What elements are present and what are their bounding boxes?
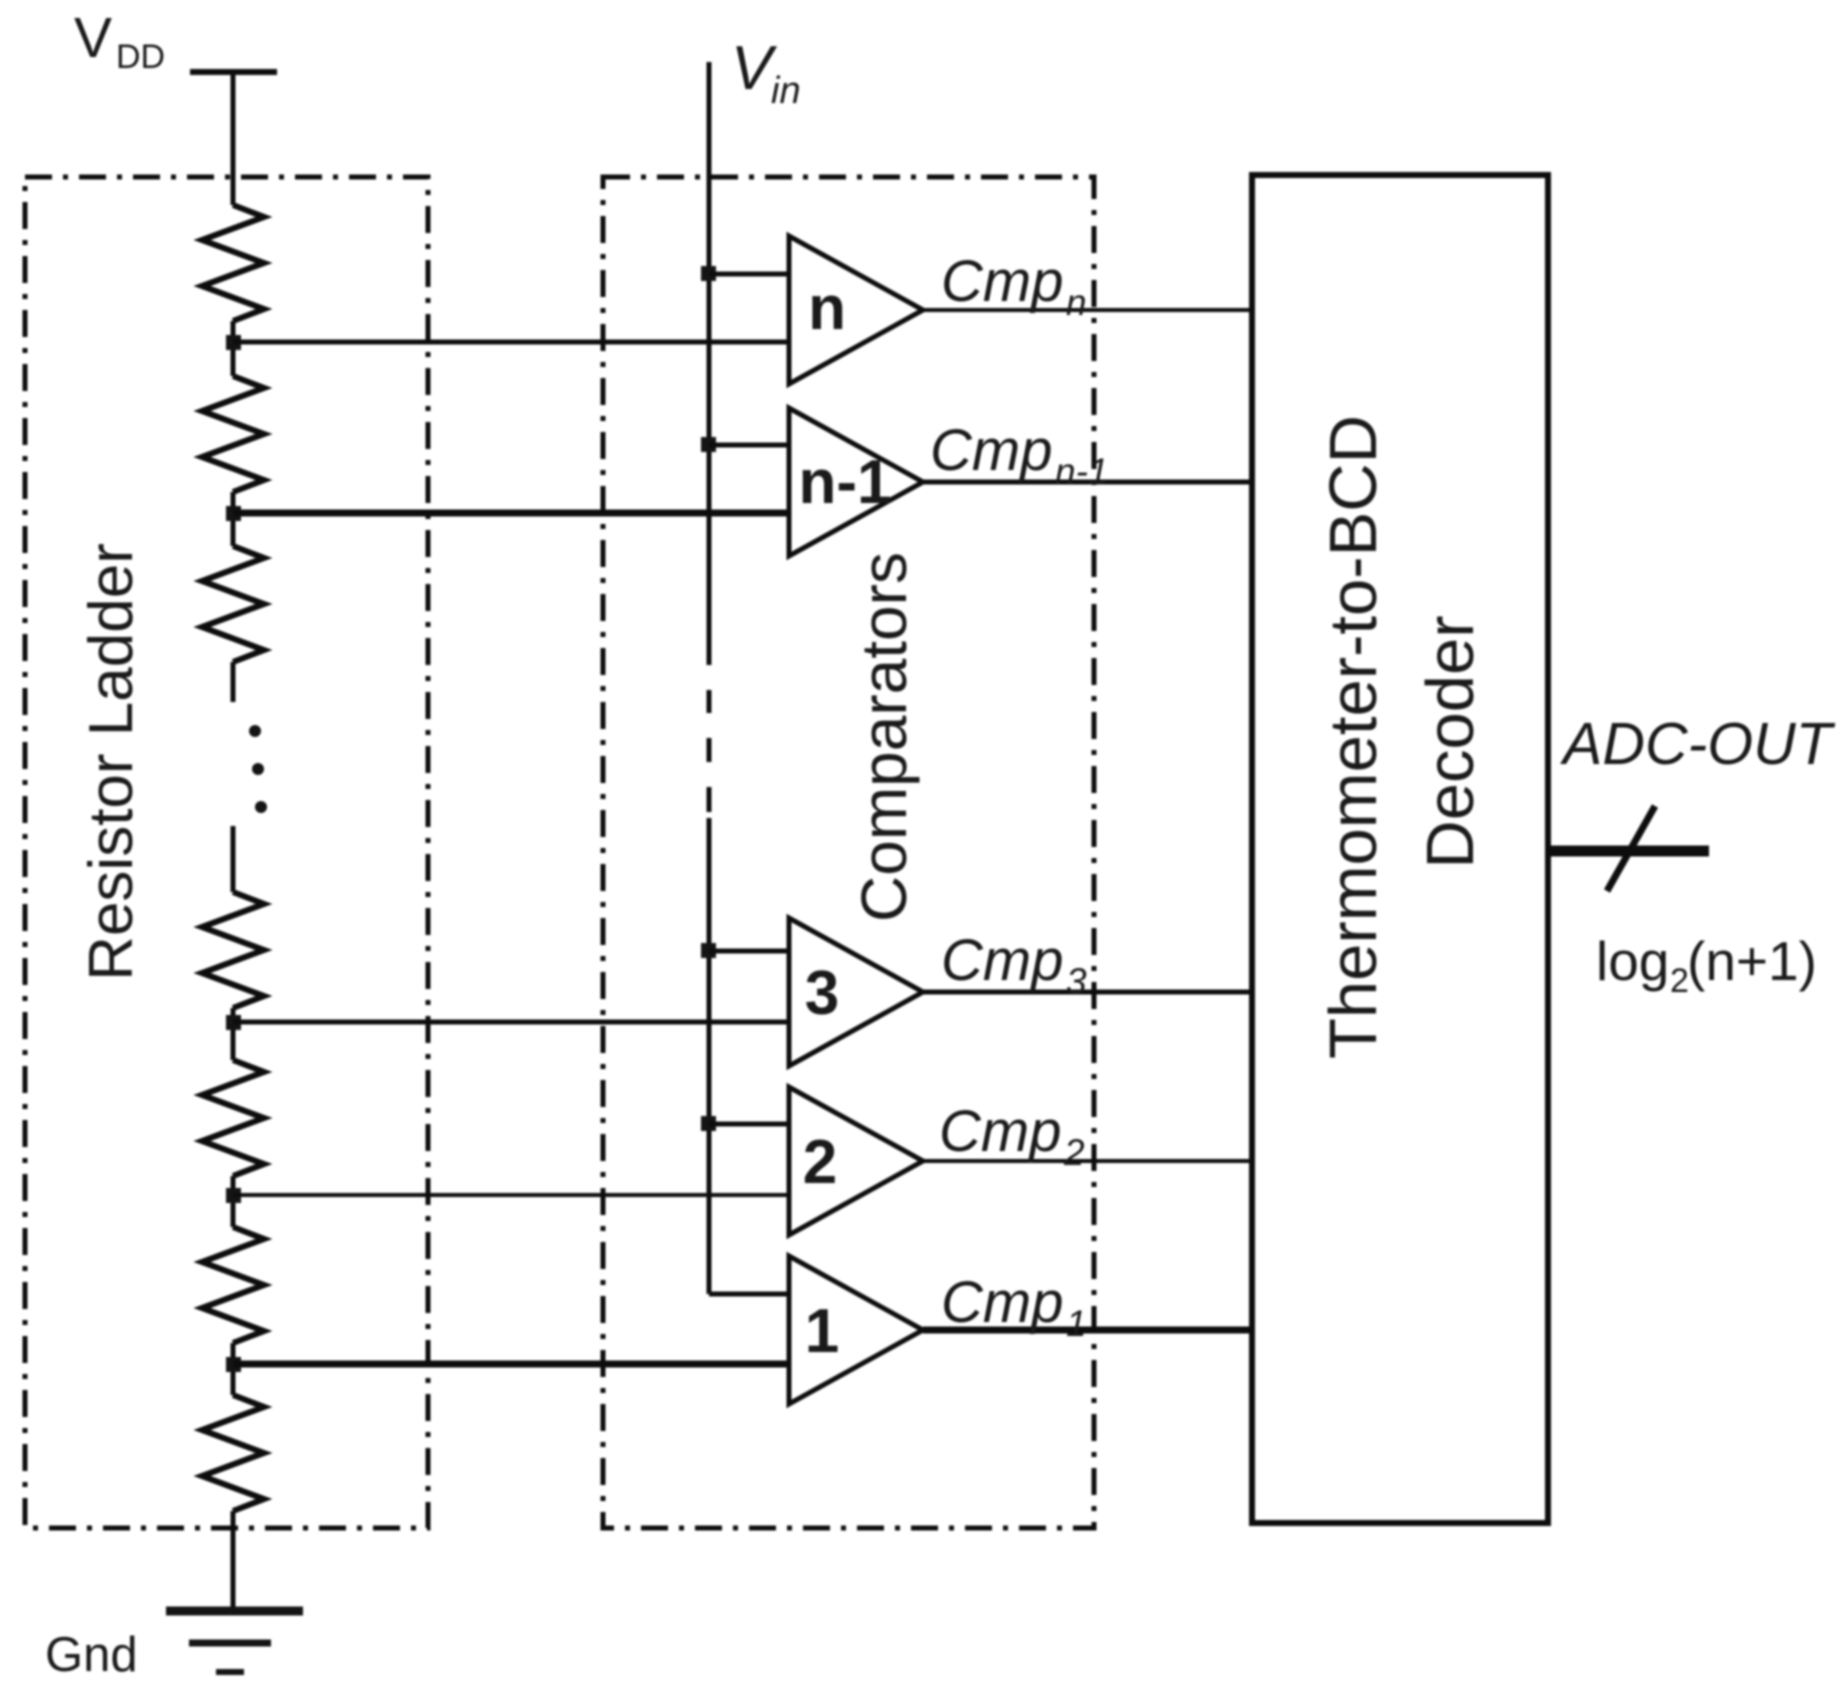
svg-text:Cmp: Cmp [941,249,1063,314]
net label Cmp_1 [941,1270,1087,1344]
svg-text:3: 3 [1066,961,1087,1002]
wire Vin vertical upper [707,62,712,665]
svg-text:n: n [1066,282,1087,323]
svg-text:1: 1 [805,1297,839,1366]
svg-text:Cmp: Cmp [941,928,1063,993]
wire Vin to comparator 2 upper input [709,1122,789,1127]
wire ADC output bus [1548,846,1709,857]
wire Vin to comparator n upper input [709,272,789,277]
svg-text:Resistor Ladder: Resistor Ladder [77,543,146,981]
resistor R6 [202,1227,264,1343]
wire tap D to comparator 2 lower input [233,1193,789,1197]
comparators dash-dot box [603,177,1094,1528]
svg-text:in: in [771,70,801,112]
wire Vin vertical lower [707,818,712,1294]
resistor ladder dash-dot box [25,177,428,1528]
wire comparator 2 output Cmp_2 [923,1159,1252,1163]
comparator n-1 [789,408,923,556]
svg-text:1: 1 [1066,1303,1087,1344]
node tap C junction dot [226,1015,241,1030]
svg-text:Comparators: Comparators [848,552,920,922]
svg-text:3: 3 [805,959,839,1028]
net label Cmp_3 [941,928,1087,1002]
wire tap A to comparator n lower input [233,340,789,345]
node tap D junction dot [226,1188,241,1203]
svg-text:Cmp: Cmp [930,418,1052,483]
resistor R1 [202,205,264,321]
wire R6 to tap E [231,1343,236,1395]
node tap E junction dot [226,1357,241,1372]
wire tap C to comparator 3 lower input [233,1020,789,1025]
ladder continuation dots [249,725,267,813]
wire comparator n-1 output Cmp_n-1 [923,480,1252,485]
comparator 3 [789,918,923,1066]
ground symbol [166,1611,303,1672]
node Vin junction dot comparator 2 [701,1116,716,1131]
wire ladder resume to R4 [231,826,236,892]
svg-text:n-1: n-1 [1055,451,1108,492]
svg-text:V: V [74,6,112,70]
wire tap E to comparator 1 lower input [233,1361,789,1368]
wire R7 to ground [231,1511,236,1612]
wire R3 lead out [231,662,236,702]
wire R2 to tap B [231,492,236,546]
wire VDD to ladder [231,72,236,205]
bus width slash [1607,806,1655,891]
svg-text:n: n [808,274,846,343]
wire tap B to comparator n-1 lower input [233,510,789,517]
svg-text:Cmp: Cmp [941,1270,1063,1335]
svg-text:2: 2 [803,1128,837,1197]
node Vin junction dot comparator n [701,266,716,281]
net label Cmp_n-1 [930,418,1108,492]
wire comparator 1 output Cmp_1 [923,1327,1252,1334]
comparator n [789,236,923,384]
wire comparator n output Cmp_n [923,308,1252,312]
wire Vin dashed continuation [707,690,712,812]
resistor R5 [202,1060,264,1176]
wire R4 to tap C [231,1008,236,1060]
VDD terminal bar [190,69,277,75]
resistor R3 [202,546,264,662]
node tap B junction dot [226,506,241,521]
node Vin label [731,34,801,112]
wire R1 to tap A [231,321,236,376]
node tap A junction dot [226,335,241,350]
svg-text:Cmp: Cmp [939,1099,1061,1164]
bus width label log2(n+1) [1596,930,1817,1000]
svg-text:DD: DD [116,38,165,76]
net label Cmp_n [941,249,1087,323]
svg-text:log: log [1596,930,1669,992]
resistor R4 [202,892,264,1008]
svg-text:ADC-OUT: ADC-OUT [1560,711,1836,777]
svg-text:(n+1): (n+1) [1687,930,1817,992]
svg-text:n-1: n-1 [799,448,892,517]
wire Vin to comparator n-1 upper input [709,443,789,448]
comparator 1 [789,1256,923,1404]
net label Cmp_2 [939,1099,1085,1173]
resistor R7 [202,1395,264,1511]
wire Vin to comparator 3 upper input [709,949,789,954]
node Vin junction dot comparator n-1 [701,437,716,452]
comparator 2 [789,1087,923,1235]
wire comparator 3 output Cmp_3 [923,990,1252,995]
node VDD label [74,6,165,76]
resistor R2 [202,376,264,492]
wire Vin to comparator 1 upper input [709,1292,789,1297]
node Vin junction dot comparator 3 [701,943,716,958]
svg-text:2: 2 [1063,1132,1085,1173]
svg-text:Decoder: Decoder [1413,615,1488,868]
svg-text:Thermometer-to-BCD: Thermometer-to-BCD [1316,415,1391,1059]
thermometer-to-BCD decoder block U1 [1252,175,1548,1523]
wire R5 to tap D [231,1176,236,1227]
svg-text:Gnd: Gnd [45,1628,138,1682]
